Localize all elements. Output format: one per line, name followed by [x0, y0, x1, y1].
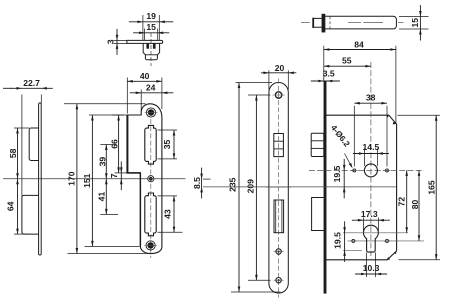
svg-text:40: 40 — [140, 71, 150, 81]
svg-text:80: 80 — [410, 200, 420, 210]
dimension 19 (top view box width) — [129, 11, 173, 40]
strike front: top screw hole — [145, 108, 158, 117]
dimension 15 (spindle size) — [399, 5, 429, 41]
dimension 165 (case height) — [398, 115, 441, 260]
svg-text:8.5: 8.5 — [192, 177, 202, 189]
dimension 7 (step to centreline) — [109, 161, 122, 190]
dimension 66 (top to step edge) — [109, 115, 126, 173]
latch bolt side view — [311, 133, 324, 156]
dimension 39 (latch centre to centreline) — [97, 145, 116, 179]
strike front: deadbolt cutout — [145, 193, 156, 236]
strike front: vertical centerline — [150, 119, 152, 258]
svg-text:15: 15 — [410, 18, 420, 28]
dimension 19.5 upper — [332, 159, 346, 199]
svg-text:19: 19 — [146, 11, 156, 21]
strike plate side view — [22, 103, 41, 255]
svg-text:209: 209 — [246, 179, 256, 194]
svg-text:17.3: 17.3 — [361, 209, 378, 219]
svg-text:38: 38 — [366, 92, 376, 102]
faceplate top screw hole — [273, 92, 285, 98]
slot bottom reference line — [343, 249, 362, 251]
dimension 41 (centreline to bolt centre) — [97, 179, 119, 215]
case corner break marks — [387, 115, 397, 260]
fixing hole bottom-right — [384, 239, 391, 242]
dimension 40 (strike width) — [127, 71, 162, 114]
dimension 170 (overall height) — [64, 104, 152, 254]
dimension 19.5 lower — [332, 221, 346, 262]
svg-text:58: 58 — [8, 148, 18, 158]
faceplate front view outline — [269, 83, 288, 294]
case vertical centerline — [370, 62, 372, 256]
spindle side view — [313, 14, 396, 32]
dimension 72 (follower to cylinder) — [397, 170, 408, 232]
strike front: bottom screw hole — [144, 241, 157, 250]
euro cylinder hole — [363, 225, 378, 252]
svg-text:55: 55 — [342, 55, 352, 65]
svg-text:35: 35 — [162, 139, 172, 149]
dimension 209 (screw hole distance) — [246, 95, 271, 280]
dimension 151 (face height) — [82, 115, 140, 246]
dimension 20 (faceplate width) — [261, 63, 296, 90]
cylinder centre reference line — [343, 232, 408, 234]
reference line holes row — [348, 240, 425, 242]
label 4-dia6.2 with leader — [329, 123, 353, 168]
dimension 8.5 (centreline offset) — [192, 168, 210, 199]
dimension 3 (plate thickness) — [106, 29, 127, 55]
svg-text:43: 43 — [163, 209, 173, 219]
dimension 10.3 (cylinder slot width) — [355, 253, 387, 278]
svg-text:3.5: 3.5 — [323, 69, 335, 79]
fixing hole bottom-left — [350, 239, 357, 242]
svg-text:64: 64 — [5, 201, 15, 211]
lock case outline — [324, 115, 397, 260]
fixing hole top-right — [384, 169, 391, 172]
svg-text:14.5: 14.5 — [363, 142, 380, 152]
strike plate front view outline — [127, 104, 162, 254]
dimension 15 (top view inner width) — [133, 22, 169, 40]
follower hole dia 14.5 — [364, 164, 377, 177]
dimension 24 (face part width) — [130, 82, 174, 111]
dimension 80 (follower to fixing holes) — [410, 170, 420, 241]
svg-text:3: 3 — [106, 39, 116, 44]
strike front: latch cutout — [145, 125, 156, 164]
faceplate screw hole lower1 — [274, 249, 284, 254]
faceplate deadbolt opening — [274, 200, 284, 233]
dimension 3.5 (faceplate thickness) — [311, 69, 340, 83]
svg-text:72: 72 — [397, 197, 407, 207]
svg-text:41: 41 — [97, 192, 107, 202]
svg-text:22.7: 22.7 — [23, 78, 40, 88]
case horizontal centerline (follower axis) — [309, 169, 424, 171]
dimension 35 (latch cutout height) — [158, 130, 178, 159]
faceplate screw hole lower2 — [274, 278, 284, 283]
svg-text:20: 20 — [275, 63, 285, 73]
dimension 55 (backset) — [324, 55, 371, 67]
dimension 84 (case depth overall) — [324, 39, 396, 124]
svg-text:7: 7 — [109, 173, 119, 178]
faceplate horizontal centerline — [266, 186, 291, 188]
dimension 235 (faceplate length) — [228, 83, 281, 293]
svg-text:66: 66 — [109, 139, 119, 149]
svg-text:39: 39 — [97, 157, 107, 167]
reference line y187 — [203, 186, 396, 188]
svg-text:84: 84 — [354, 39, 364, 49]
dimension 22.7 (box depth) — [3, 78, 53, 197]
deadbolt side view — [312, 198, 324, 231]
dimension 43 (bolt cutout height) — [158, 196, 183, 232]
strike plate top view — [127, 33, 163, 66]
dimension 58 (top box to centerline) — [8, 128, 29, 179]
dimension 38 (fixing holes distance) — [354, 92, 387, 166]
dimension 64 (centerline to bottom box) — [5, 179, 29, 234]
strike front: middle fixing hole — [145, 176, 156, 182]
svg-text:165: 165 — [426, 180, 436, 195]
svg-text:170: 170 — [67, 171, 77, 186]
svg-text:151: 151 — [82, 173, 92, 188]
svg-text:15: 15 — [146, 22, 156, 32]
dimension 17.3 (cylinder hole dia) — [352, 209, 390, 231]
faceplate vertical centerline — [278, 79, 280, 298]
svg-text:235: 235 — [228, 177, 238, 192]
lock faceplate edge-on (thick bar) — [324, 81, 327, 293]
svg-text:24: 24 — [146, 82, 156, 92]
svg-text:19.5: 19.5 — [332, 165, 342, 182]
svg-text:19.5: 19.5 — [332, 232, 342, 249]
faceplate latch opening — [274, 134, 284, 157]
fixing hole top-left — [351, 169, 358, 172]
dimension 14.5 (follower hole dia) — [353, 142, 389, 166]
svg-text:10.3: 10.3 — [363, 263, 380, 273]
horizontal centerline through strike views — [3, 178, 186, 180]
spindle centerline — [301, 22, 310, 24]
